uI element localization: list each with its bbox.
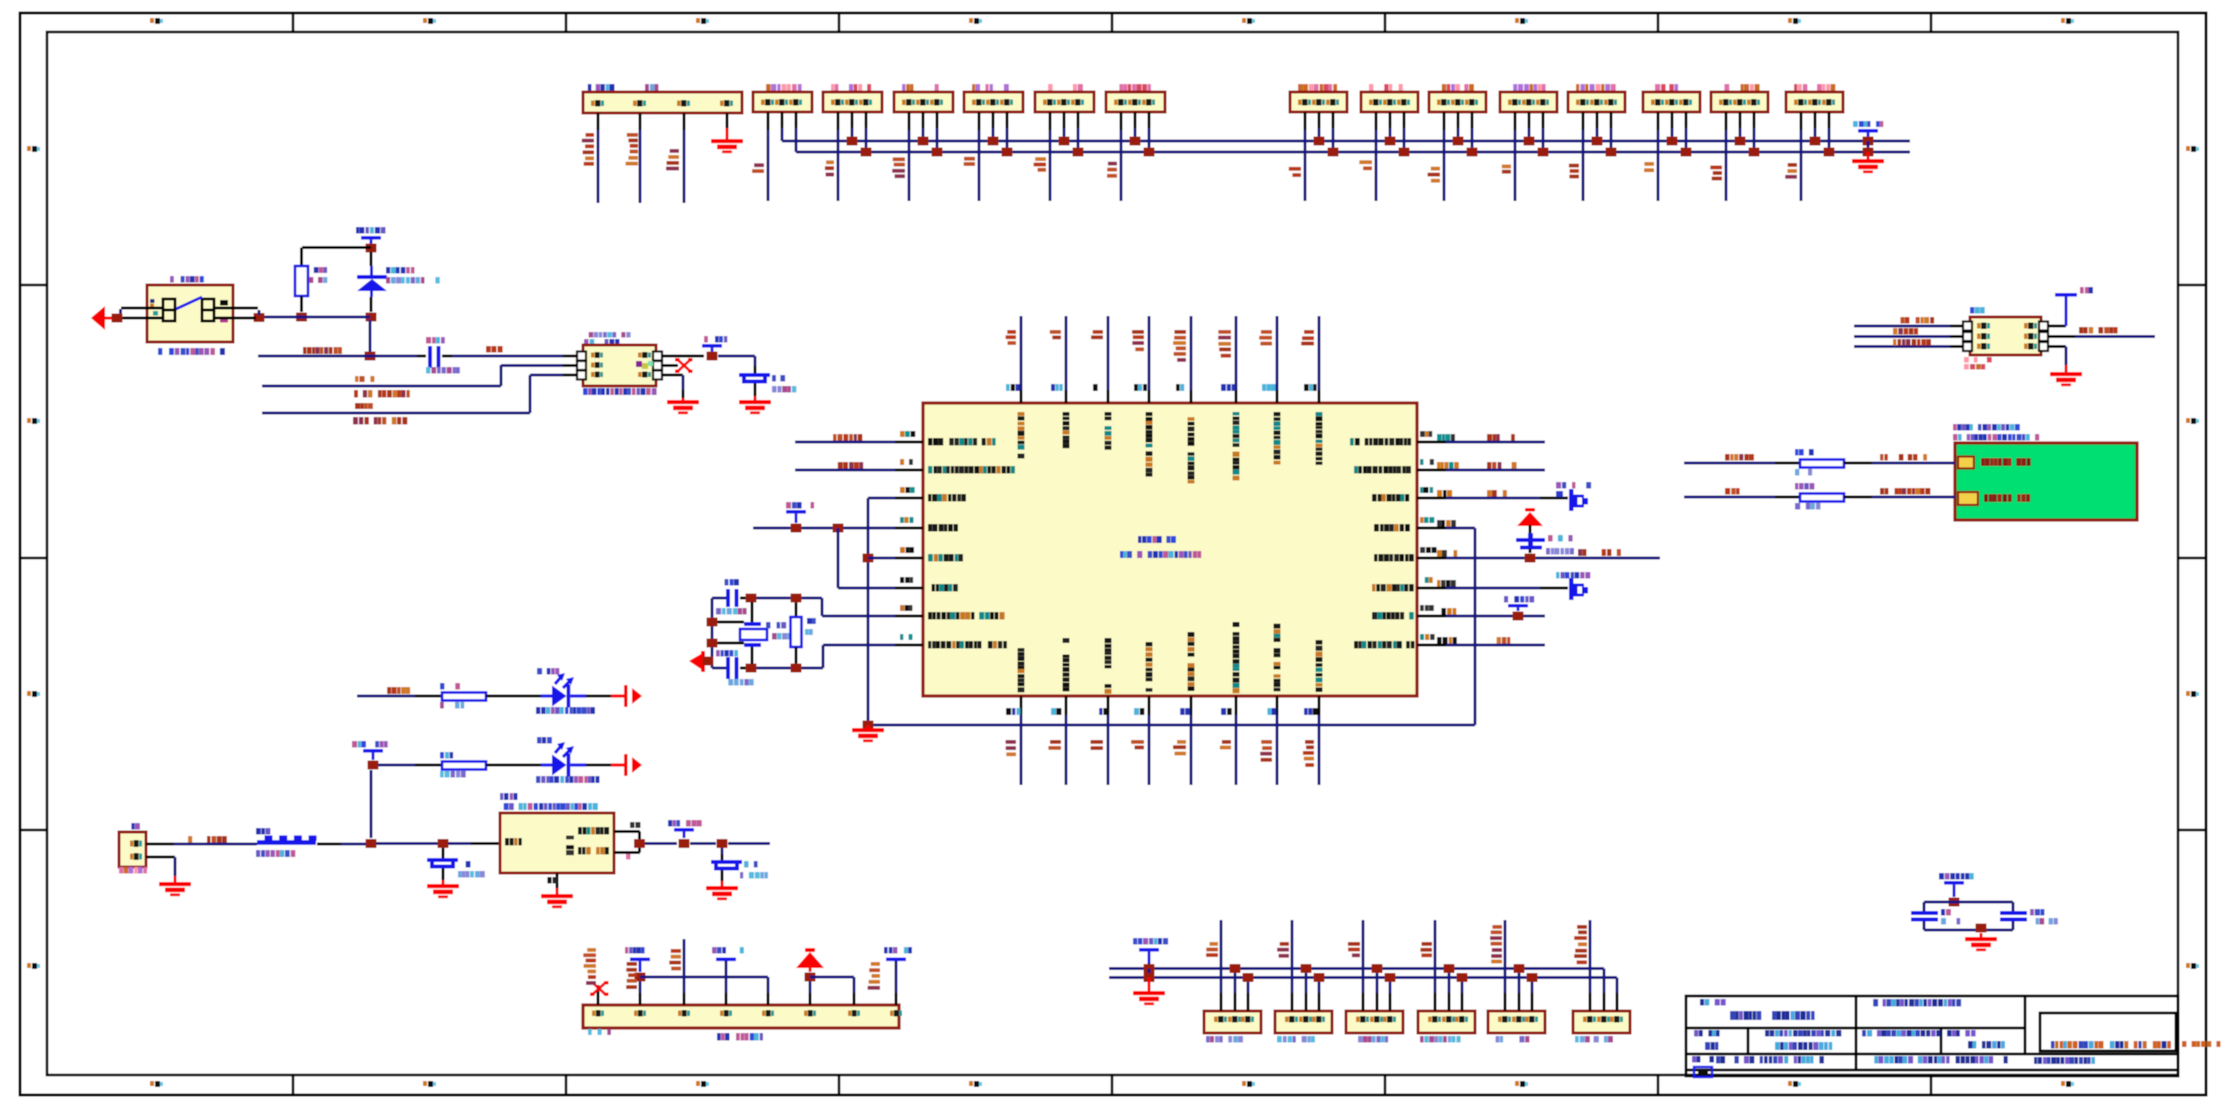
wire IC1 left pin 7 lead — [895, 615, 923, 618]
net label top pin 3 — [1091, 330, 1103, 339]
IC1 left pin 1 number — [900, 431, 915, 437]
wire TXD to module — [1684, 496, 1775, 499]
wire K2 pin1 tall — [1291, 993, 1294, 1011]
wire K4 pin1 tall — [1434, 993, 1437, 1011]
junction — [863, 554, 874, 563]
wire J12 pin3 — [1610, 112, 1613, 128]
capacitor C4 label — [716, 650, 738, 657]
net label K3 pin1 — [1348, 942, 1360, 957]
junction — [833, 524, 844, 533]
IC1 right pin 8 number — [1420, 634, 1435, 640]
IC1 top pin 5 number — [1176, 384, 1184, 391]
connector J18 8-pin header — [583, 1005, 899, 1028]
IC1 left pin 3 number — [900, 487, 915, 493]
net label bottom pin 5 — [1173, 740, 1186, 755]
diode D2 label — [1556, 482, 1591, 489]
connector J4 label — [902, 84, 939, 91]
wire IC1 bottom pin 4 — [1148, 696, 1151, 715]
connector K3 label — [1358, 1036, 1388, 1043]
wire K2 pin2 — [1305, 993, 1308, 1011]
wire J8 pin3 — [1332, 112, 1335, 128]
wire IC1 bottom pin 3 — [1107, 696, 1110, 715]
connector K2 label — [1277, 1036, 1315, 1043]
wire IC1 row7 right stub — [1446, 615, 1545, 618]
wire IC1 top pin 6 — [1235, 316, 1238, 390]
net label SCK — [355, 376, 375, 382]
resistor R5 — [1800, 460, 1844, 468]
wire IC1 right pin 3 lead — [1417, 497, 1446, 500]
wire IC2 outputs bracket — [614, 830, 640, 833]
connector J4 3-pin header — [894, 92, 953, 112]
wire J10 pin3 — [1471, 112, 1474, 128]
resistor R1 — [295, 266, 308, 296]
junction — [368, 761, 379, 770]
wire SJ1 in2 — [1854, 335, 1950, 338]
wire J11 pin1 — [1514, 112, 1517, 130]
IC1 right pin 7 name — [1372, 612, 1414, 620]
IC1 bottom pin 8 name — [1316, 640, 1323, 692]
net label bottom pin 1 — [1006, 740, 1017, 756]
supply VCC cap pair label — [1939, 873, 1974, 880]
net label J18 pin8 — [868, 962, 880, 990]
wire R1 to node — [300, 296, 303, 312]
wire IC1 row2 right stub — [1446, 469, 1545, 472]
wire K5 pin3 — [1531, 993, 1534, 1011]
connector J17 power label — [131, 823, 140, 830]
IC1 left pin 2 name — [928, 466, 1015, 474]
IC1 right pin 5 name — [1374, 554, 1414, 562]
junction — [791, 594, 802, 603]
net label — [1034, 157, 1046, 172]
connector J6 label — [1048, 84, 1083, 91]
net label top pin 1 — [1006, 330, 1016, 345]
diode D2 — [1569, 489, 1588, 511]
IC1 top pin 4 number — [1134, 384, 1147, 391]
net label — [1710, 166, 1722, 181]
IC1 top pin 8 number — [1304, 384, 1317, 391]
connector J17 power input — [119, 832, 146, 867]
junction — [1527, 973, 1538, 982]
connector J9 3-pin header — [1361, 92, 1418, 112]
title block rev text — [1862, 1030, 1941, 1037]
wire switch left contacts — [121, 307, 163, 310]
ground at IC2 — [541, 894, 573, 908]
IC1 bottom pin 1 name — [1018, 648, 1025, 692]
frame row ticks right — [2178, 284, 2206, 832]
net label top pin 8 — [1301, 330, 1314, 345]
crystal Q1 value label — [772, 633, 801, 640]
IC1 bottom pin 4 number — [1134, 708, 1144, 715]
wire J1 pin3 — [683, 113, 686, 130]
net label AREF — [1578, 549, 1621, 556]
wire MOSI net — [262, 412, 530, 415]
wire J18 pin8 to VCC — [895, 993, 898, 1005]
wire LED1 to supply arrow — [586, 695, 611, 698]
junction — [679, 839, 690, 848]
IC1 right pin 3 name — [1372, 494, 1409, 502]
wire J10 pin1 — [1443, 112, 1446, 130]
wire SJ1 in1 — [1854, 325, 1950, 328]
LED2 value label — [536, 776, 600, 783]
net label TXD — [838, 462, 863, 469]
inductor L1 label — [256, 828, 270, 835]
net label bottom pin 7 — [1260, 740, 1272, 762]
capacitor C5 label — [1548, 535, 1573, 542]
net label RXD module — [1725, 454, 1754, 461]
IC1 left pin 1 name — [928, 438, 996, 446]
connector K5 3-pin header — [1488, 1011, 1545, 1033]
IC2 output pin label — [630, 822, 641, 828]
IC1 value label — [1120, 551, 1201, 558]
connector K6 3-pin header — [1573, 1011, 1630, 1033]
junction — [1385, 137, 1396, 146]
component SJ1 solder jumper — [1970, 317, 2041, 355]
wire IC1 row5 to vertical — [868, 557, 895, 560]
switch S1 value label — [158, 348, 225, 355]
wire between rails top row — [1867, 141, 1870, 152]
wire J6 pin2 — [1063, 112, 1066, 128]
diode D3 — [1569, 578, 1588, 600]
ground bottom rails — [1133, 991, 1165, 1005]
net label bottom pin 2 — [1048, 740, 1061, 750]
wire VCC rail J18 right — [810, 976, 854, 979]
net label MOSI — [355, 403, 373, 409]
IC1 top pin 7 name — [1274, 412, 1281, 465]
junction — [1453, 137, 1464, 146]
junction — [1130, 137, 1141, 146]
junction — [707, 639, 718, 648]
net label K2 pin1 — [1277, 942, 1289, 958]
net label bottom pin 3 — [1091, 740, 1104, 750]
wire K1 pin1 tall — [1220, 993, 1223, 1011]
ground at J17 — [159, 882, 191, 896]
junction — [1399, 148, 1410, 157]
net label RXD — [833, 434, 862, 441]
wire IC1 left pin 4 lead — [895, 527, 923, 530]
wire K5 pin1 tall — [1504, 993, 1507, 1011]
net label bottom pin 6 — [1220, 740, 1231, 749]
connector K4 3-pin header — [1418, 1011, 1475, 1033]
inductor L1 value label — [256, 850, 295, 857]
wire cap pair top rail — [1924, 901, 2013, 904]
net label — [1428, 167, 1441, 183]
connector J2 label — [766, 84, 802, 91]
junction — [1976, 924, 1987, 933]
connector J12 label — [1576, 84, 1616, 91]
supply arrow crystal ground — [689, 651, 705, 672]
wire J7 pin1 — [1120, 112, 1123, 130]
IC1 right pin 1 number — [1420, 431, 1432, 437]
junction — [717, 839, 728, 848]
LED1 label — [537, 668, 559, 675]
wire IC1 bottom pin 2 — [1065, 696, 1068, 715]
wire IC1 bottom pin 6 — [1235, 696, 1238, 715]
net label RESET 2 — [486, 346, 503, 353]
IC1 left pin 3 name — [928, 494, 966, 502]
IC1 bottom pin 1 number — [1006, 708, 1020, 715]
wire ISP pin3 to ground — [663, 374, 683, 377]
connector SV1 value label — [583, 388, 657, 395]
LED2 — [541, 742, 586, 777]
IC1 left pin 8 name — [928, 641, 1007, 649]
frame grid labels left — [27, 146, 40, 969]
net label bottom pin 4 — [1131, 740, 1144, 749]
wire regulator output — [645, 842, 677, 845]
wire long vertical to ground bus — [867, 498, 870, 725]
IC1 bottom pin 7 name — [1274, 624, 1281, 692]
wire IC1 right pin 7 lead — [1417, 615, 1446, 618]
IC1 right pin 2 number — [1420, 459, 1434, 465]
wire C7 to ground — [721, 871, 724, 882]
connector J3 3-pin header — [823, 92, 882, 112]
junction — [1467, 148, 1478, 157]
IC1 left pin 6 number — [900, 577, 913, 583]
IC1 left pin 7 name — [928, 612, 1005, 620]
wire AVCC to row6 — [837, 528, 840, 588]
junction — [1385, 973, 1396, 982]
wire R4 to LED2 — [486, 764, 541, 767]
crystal Q1 — [751, 602, 754, 622]
net label — [582, 133, 594, 166]
net label — [1359, 160, 1372, 170]
connector J14 3-pin header — [1711, 92, 1768, 112]
resistor R4 — [442, 762, 486, 770]
wire LED2 to supply arrow — [586, 764, 611, 767]
IC1 bottom pin 3 number — [1099, 708, 1108, 715]
wire J3 pin2 — [851, 112, 854, 128]
wire J13 pin3 — [1685, 112, 1688, 128]
junction — [791, 524, 802, 533]
net label SJ1 in3 — [1893, 339, 1931, 346]
wire J14 pin3 — [1753, 112, 1756, 128]
module U2 pad 2 label — [1984, 494, 2030, 502]
wire to ground top row — [1867, 152, 1870, 159]
LED1 — [541, 673, 586, 708]
net label — [1289, 167, 1301, 177]
IC1 top pin 1 name — [1018, 412, 1025, 459]
supply VCC at ISP label — [704, 336, 727, 343]
connector J10 3-pin header — [1429, 92, 1486, 112]
title block title text — [1700, 999, 1726, 1006]
wire arrow to capacitor C5 — [1529, 525, 1532, 536]
connector J1 label — [588, 84, 615, 91]
supply VCC at LED2 label — [352, 741, 388, 748]
wire J9 pin2 — [1389, 112, 1392, 128]
connector K4 label — [1420, 1036, 1461, 1043]
net label top pin 7 — [1259, 330, 1272, 346]
wire J6 pin3 — [1077, 112, 1080, 128]
wire RESET net — [258, 355, 417, 358]
wire IC1 bottom pin 7 — [1276, 696, 1279, 715]
wire IC1 bottom pin 1 — [1020, 696, 1023, 715]
wire J7 pin2 — [1134, 112, 1137, 128]
junction — [988, 137, 999, 146]
capacitor C8 — [1923, 902, 1926, 911]
junction — [1059, 137, 1070, 146]
IC1 bottom pin 5 number — [1180, 708, 1190, 715]
wire IC1 left pin 5 lead — [895, 557, 923, 560]
IC1 top pin 1 number — [1006, 384, 1020, 391]
wire IC1 bottom pin 8 — [1318, 696, 1321, 715]
VCC supply switch section — [361, 236, 381, 240]
net label — [1644, 162, 1654, 172]
connector J18 label — [717, 1033, 763, 1041]
supply VCC at AVCC label — [786, 502, 814, 509]
wire IC1 right pin 4 lead — [1417, 527, 1446, 530]
capacitor C3 value label — [716, 608, 747, 615]
IC1 right pin 2 name — [1354, 466, 1411, 474]
wire J1 pin2 — [639, 113, 642, 130]
IC1 bottom pin 2 number — [1051, 708, 1061, 715]
wire SJ1 pin1 to VCC — [2048, 325, 2066, 328]
ground at J1 pin4 — [711, 139, 743, 153]
connector K3 3-pin header — [1346, 1011, 1403, 1033]
net label top pin 2 — [1050, 330, 1061, 339]
junction — [1949, 898, 1960, 907]
module U2 RF module — [1955, 443, 2137, 520]
junction — [1457, 973, 1468, 982]
IC1 right pin 1 name — [1350, 438, 1411, 446]
junction — [1514, 964, 1525, 973]
capacitor C2 — [739, 373, 770, 384]
wire crystal bottom rail — [751, 667, 823, 670]
junction — [1592, 137, 1603, 146]
wire node to RESET line — [369, 320, 372, 356]
wire IC1 row3 to diode D2 — [1446, 497, 1540, 500]
supply VCC at J18 pin2 label — [625, 947, 645, 954]
junction — [861, 148, 872, 157]
wire J15 pin3 — [1828, 112, 1831, 128]
wire IC1 left pin 6 lead — [895, 587, 923, 590]
net label bottom pin 8 — [1303, 740, 1314, 767]
IC1 bottom pin 3 name — [1105, 638, 1112, 694]
connector K5 label — [1496, 1036, 1530, 1043]
IC1 main microcontroller — [923, 403, 1417, 696]
wire IC1 left pin 2 lead — [895, 469, 923, 472]
IC1 right pin 8 name — [1354, 641, 1415, 649]
connector J15 label — [1794, 84, 1835, 91]
wire VCC stem cap pair — [1953, 885, 1956, 897]
wire J12 pin1 — [1582, 112, 1585, 130]
connector J3 label — [831, 84, 871, 91]
supply VCC at regulator output label — [668, 820, 702, 827]
connector J6 3-pin header — [1035, 92, 1094, 112]
wire J3 pin3 — [865, 112, 868, 128]
IC1 top pin 4 name — [1146, 412, 1153, 477]
supply VCC at SJ1 — [2080, 287, 2093, 294]
module U2 pad 1 label — [1981, 458, 2031, 466]
IC1 top pin 8 name — [1316, 412, 1323, 465]
IC1 top pin 2 number — [1051, 384, 1063, 391]
connector J7 label — [1119, 84, 1151, 91]
title block outline — [1686, 996, 2178, 1076]
wire SJ1 pin2 out — [2048, 335, 2075, 338]
junction — [296, 313, 307, 322]
wire K3 pin3 — [1389, 993, 1392, 1011]
net label — [752, 163, 764, 173]
wire C6 to ground — [442, 869, 445, 881]
wire J13 pin1 — [1657, 112, 1660, 130]
net label SJ1 out — [2079, 327, 2118, 334]
supply VCC bottom rails label — [1133, 938, 1168, 945]
connector J13 label — [1655, 84, 1678, 91]
wire J18 pin3 tall — [683, 993, 686, 1005]
junction — [1824, 148, 1835, 157]
net label K1 pin1 — [1206, 942, 1218, 957]
frame row ticks left — [20, 284, 47, 832]
wire J6 pin1 — [1049, 112, 1052, 130]
net label SJ1 in1 — [1900, 317, 1934, 324]
net label power in — [188, 836, 227, 843]
capacitor C5 — [1516, 533, 1545, 550]
connector J8 label — [1298, 84, 1337, 91]
wire J4 pin1 — [908, 112, 911, 130]
wire IC1 row7 xtal1 — [822, 615, 895, 618]
wire RXD to module — [1684, 462, 1775, 465]
junction — [635, 973, 646, 982]
wire VCC to resistor R1 — [302, 246, 371, 249]
net label J18 pin2 — [626, 962, 637, 989]
wire J13 pin2 — [1671, 112, 1674, 128]
bus rail bottom VCC — [1109, 967, 1604, 970]
ground at ISP pin3 — [667, 400, 699, 414]
wire K3 pin1 tall — [1362, 993, 1365, 1011]
IC1 top pin 5 name — [1188, 417, 1195, 483]
IC1 bottom pin 8 number — [1304, 708, 1318, 715]
wire J5 pin1 — [978, 112, 981, 130]
connector K6 label — [1575, 1036, 1613, 1043]
IC1 top pin 2 name — [1063, 412, 1070, 448]
junction — [1002, 148, 1013, 157]
wire SJ1 in3 — [1854, 345, 1950, 348]
wire ground bus stem — [867, 725, 870, 728]
wire IC1 top pin 2 — [1065, 316, 1068, 390]
wire K4 pin2 — [1448, 993, 1451, 1011]
IC1 right pin 4 name — [1374, 524, 1410, 532]
IC1 left pin 8 number — [900, 634, 913, 640]
junction — [863, 721, 874, 730]
wire IC1 right pin 6 lead — [1417, 587, 1446, 590]
wire IC1 left pin 8 lead — [895, 644, 923, 647]
junction — [1444, 964, 1455, 973]
supply arrow right LED2 — [624, 754, 642, 776]
frame grid labels bottom — [150, 1081, 2074, 1087]
wire J2 pin1 — [767, 112, 770, 130]
frame column ticks bottom — [292, 1075, 1933, 1095]
ground at C2 — [739, 400, 771, 414]
title block inner text — [2051, 1041, 2171, 1049]
connector K1 3-pin header — [1204, 1011, 1261, 1033]
connector J11 3-pin header — [1500, 92, 1557, 112]
wire to ground cap pair — [1980, 933, 1983, 937]
net label K4 pin1 — [1420, 942, 1432, 957]
frame column ticks top — [292, 13, 1933, 32]
wire J15 pin2 — [1814, 112, 1817, 128]
component SJ1 value label — [1964, 357, 1992, 363]
junction — [1144, 964, 1155, 973]
junction — [1314, 973, 1325, 982]
wire IC1 top pin 8 — [1318, 316, 1321, 390]
wire J14 pin2 — [1739, 112, 1742, 128]
wire J9 pin3 — [1403, 112, 1406, 128]
capacitor C1 — [428, 346, 432, 368]
wire IC1 row4 down to ground bus — [1446, 527, 1475, 530]
VCC supply top row — [1858, 129, 1878, 133]
wire J3 pin1 — [837, 112, 840, 130]
IC1 left pin 6 name — [932, 584, 958, 592]
wire R3 to LED1 — [486, 695, 541, 698]
diode D1 — [357, 275, 387, 291]
